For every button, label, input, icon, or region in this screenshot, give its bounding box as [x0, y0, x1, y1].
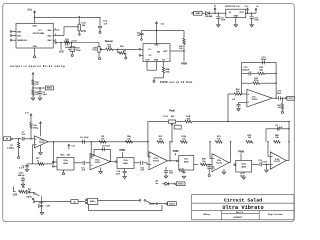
- svg-text:Rev 1.0: Rev 1.0: [236, 212, 244, 214]
- capacitor C10 10uF output: [277, 91, 285, 101]
- analog switch IC2d box: [234, 160, 252, 172]
- svg-text:VCP: VCP: [145, 60, 150, 62]
- wire IC1 RA4 to LFO pot wiper: [53, 27, 77, 36]
- svg-text:RA2: RA2: [48, 39, 52, 42]
- node VCO input pin circle: [139, 49, 141, 51]
- 3.3v power flag at 555: [155, 22, 165, 26]
- capacitor C1c .1uF: [81, 161, 90, 172]
- svg-text:OSC2: OSC2: [169, 204, 175, 206]
- regulator output wire: [245, 13, 256, 14]
- transistor Q2 invert: [155, 181, 174, 186]
- ground below R15: [125, 57, 127, 59]
- capacitor C4 10uF inline: [80, 136, 89, 144]
- IC1 RA0 stub wire: [53, 29, 59, 31]
- IC1 left pin stubs: [10, 31, 16, 41]
- peak wire right segment: [192, 121, 290, 122]
- ground below C11: [217, 25, 221, 27]
- svg-text:10k: 10k: [278, 107, 281, 109]
- 555 OUT wire: [170, 50, 185, 51]
- capacitor C11 10uF: [216, 13, 226, 24]
- feedback capacitor C15b .0047uF: [242, 67, 258, 75]
- svg-text:RA1: RA1: [17, 34, 21, 37]
- op-amp IC5d TL972: [270, 152, 286, 169]
- microcontroller IC1 PIC12F1840: [16, 23, 53, 48]
- VCO bus wire: [57, 42, 100, 44]
- svg-text:.0047uF: .0047uF: [17, 174, 25, 177]
- op-amp IC5b TL972: [149, 152, 168, 170]
- capacitor C1b 1uF: [137, 31, 144, 39]
- ground below C14: [99, 31, 101, 33]
- resistor R12b 10k inline: [180, 136, 187, 143]
- ground below regulator: [234, 25, 238, 27]
- bus tap to IC5a inverting input: [91, 141, 92, 158]
- capacitor C1a 1uF: [65, 43, 75, 52]
- LED net label stub: [59, 42, 64, 54]
- svg-text:10uF: 10uF: [262, 162, 267, 164]
- resistor R18 10k: [32, 78, 40, 88]
- op-amp IC5c TL972: [212, 154, 229, 172]
- ground below R21: [281, 111, 283, 113]
- 555 bottom pin wires: [147, 62, 157, 71]
- svg-text:VSS: VSS: [33, 46, 38, 48]
- capacitor C2 10uF: [38, 88, 48, 98]
- ground below C19: [237, 109, 241, 111]
- 3.3v top rail wire: [35, 16, 100, 18]
- ground below C2: [38, 98, 42, 100]
- IC5d output wire to rail: [286, 160, 289, 162]
- 3.3v flag at op-amp IC1a: [39, 122, 41, 136]
- resistor R1B 220 inline: [185, 116, 192, 123]
- ground below C15a: [21, 184, 25, 186]
- IC5a feedback capacitor C6 10uF: [91, 146, 111, 162]
- Peak net label: [169, 110, 175, 113]
- svg-text:TL972: TL972: [153, 161, 160, 163]
- wire J5 to SW1a: [78, 201, 85, 203]
- 9v flag right: [255, 6, 260, 13]
- bus tap to IC5d inverting input: [267, 141, 270, 156]
- output connector J4 OUT: [285, 96, 294, 100]
- ground below IC2b: [123, 177, 127, 179]
- diode D1 1N914B: [202, 12, 215, 19]
- svg-text:LED: LED: [59, 52, 64, 54]
- Sweep net label: [105, 39, 114, 43]
- wire switch to ground leg: [40, 196, 42, 202]
- signal bus wire: [48, 141, 148, 143]
- svg-text:PWM: PWM: [173, 151, 179, 153]
- svg-text:GND: GND: [195, 13, 200, 15]
- switch SW1B: [144, 200, 158, 206]
- PWM frequency note: [160, 80, 193, 84]
- svg-text:Page # or name: Page # or name: [268, 214, 284, 216]
- op-amp IC1a feedback resistor R17 1k: [32, 141, 54, 165]
- capacitor C14 .1uF: [98, 17, 108, 32]
- subtitle text Ultra Vibrato: [222, 205, 263, 211]
- ground below C1f: [208, 174, 210, 176]
- ground below R1: [18, 156, 20, 158]
- potentiometer Pot1 50k peak: [164, 115, 185, 126]
- title block frame: [192, 195, 294, 220]
- svg-text:Ultra Vibrato: Ultra Vibrato: [222, 205, 263, 211]
- svg-text:4.7uF: 4.7uF: [19, 167, 25, 170]
- ground below Pot1: [99, 52, 101, 59]
- svg-text:6/28/2017: 6/28/2017: [234, 217, 244, 219]
- svg-text:TL972: TL972: [251, 99, 258, 101]
- ground below IC2a: [62, 170, 64, 175]
- resistor R8 470: [19, 187, 27, 193]
- node VCOn label: [71, 40, 78, 43]
- ground below C1a C17: [71, 54, 73, 56]
- svg-text:PWM: PWM: [181, 64, 187, 66]
- LFO net label: [81, 30, 86, 33]
- IC2a left pin stubs: [53, 161, 58, 167]
- switch SW1C: [26, 193, 39, 200]
- capacitor C16 10uF: [258, 160, 270, 167]
- ground below IC5c: [222, 169, 226, 174]
- capacitor C7 .1uF: [21, 132, 34, 141]
- svg-text:PWM: PWM: [119, 150, 125, 152]
- wire SW1B to OSC2: [158, 203, 168, 205]
- op-amp IC4 mixer: [247, 89, 272, 107]
- ground below C15: [164, 176, 168, 178]
- IC1 RA2 pin wire: [53, 40, 55, 43]
- connector OSC2: [168, 202, 177, 206]
- IC4 output wire: [272, 97, 278, 99]
- svg-text:PWM: PWM: [238, 152, 244, 154]
- svg-text:IC2d: IC2d: [242, 163, 247, 165]
- capacitor C1d .1uF: [140, 161, 149, 172]
- riser from peak wire to output mixer: [227, 94, 228, 122]
- capacitor C16a 10uF below IC2b: [116, 169, 127, 177]
- ground below IC5a: [99, 168, 103, 174]
- 3.3v power flag at regulator output: [245, 6, 250, 13]
- svg-text:100pF: 100pF: [260, 59, 267, 61]
- resistor R1 2.2Meg: [7, 139, 20, 157]
- capacitor C17 10uF: [70, 47, 82, 55]
- svg-text:RA5: RA5: [17, 30, 21, 33]
- 9v power flag: [214, 6, 217, 14]
- svg-text:VDD: VDD: [154, 45, 159, 47]
- ground below IC2d: [242, 177, 246, 179]
- IC2b output wire: [134, 162, 140, 164]
- resistor R13 10k: [103, 45, 113, 51]
- pin circle below C1b: [141, 39, 143, 41]
- svg-text:VCOn: VCOn: [72, 40, 78, 42]
- 3.3v power flag at IC5a: [68, 144, 76, 149]
- svg-text:Sweep: Sweep: [105, 39, 114, 43]
- svg-text:RA3/MCLR: RA3/MCLR: [17, 39, 27, 42]
- IC5d feedback capacitor C9 1uF: [266, 125, 289, 142]
- svg-text:2Meg: 2Meg: [33, 127, 39, 129]
- svg-text:BIAS: BIAS: [47, 87, 53, 90]
- resistor R9b 10k inline: [274, 135, 281, 143]
- feedback resistor R23 510k: [242, 78, 277, 84]
- feedback right rail: [275, 62, 276, 99]
- IC1 pin numbers: [55, 29, 57, 42]
- svg-text:LFO: LFO: [81, 30, 86, 33]
- Pot2 bottom terminal pin: [79, 31, 81, 36]
- svg-text:RA0: RA0: [48, 29, 52, 32]
- feedback rail wire above 555: [142, 30, 185, 32]
- analog switch IC2b box: [117, 158, 134, 169]
- peak wire: [147, 122, 168, 143]
- svg-text:Circuit Salad: Circuit Salad: [224, 197, 262, 203]
- ground below C12: [250, 25, 254, 27]
- bypass loop wire: [89, 204, 162, 210]
- IC5b feedback riser: [169, 141, 170, 161]
- wire diode to regulator: [215, 13, 227, 14]
- capacitor C12 10uF: [250, 13, 260, 24]
- svg-text:PIC12F1840: PIC12F1840: [33, 32, 45, 35]
- title text Circuit Salad: [224, 197, 262, 203]
- battery connector J3: [192, 11, 202, 15]
- capacitor C1e 10uF below IC2c: [179, 169, 185, 174]
- bus tap to IC5c inverting input: [209, 141, 212, 159]
- capacitor C17b labels below IC2d: [240, 173, 246, 177]
- resistor R20 10k inline: [246, 135, 253, 143]
- svg-text:10uF: 10uF: [105, 146, 110, 148]
- bus tap to IC5b inverting input: [147, 141, 149, 157]
- analog switch IC2a box: [57, 154, 74, 170]
- PWM net label at IC2d: [238, 152, 244, 161]
- IC2d output wire: [252, 163, 260, 165]
- svg-text:TL972: TL972: [94, 162, 101, 164]
- svg-text:USB: USB: [154, 60, 159, 62]
- 555 TRG pin stub: [141, 48, 143, 50]
- svg-text:2.2Meg: 2.2Meg: [7, 147, 15, 149]
- ground at IC1a V-: [39, 145, 43, 154]
- capacitor C19 .1uF at IC4 +: [231, 99, 247, 109]
- svg-text:VDD: VDD: [32, 25, 37, 27]
- svg-text:OUT: OUT: [163, 51, 168, 53]
- svg-text:Peak: Peak: [169, 110, 175, 113]
- 3.3v power flag at IC1 VDD: [27, 8, 35, 17]
- resistor R21 10k to ground: [278, 98, 284, 111]
- potentiometer Pot1 sweep trim: [92, 43, 102, 53]
- capacitor C15 10uF below IC5b: [164, 167, 174, 176]
- PWM net stub: [181, 51, 187, 66]
- 3.3v power flag bias: [32, 73, 34, 79]
- potentiometer Pot2 50k LFO: [77, 22, 86, 31]
- capacitor C3 4.7uF to ground: [19, 164, 32, 170]
- resistor R5b 10k inline: [126, 136, 133, 143]
- IC1 VSS ground wire: [34, 48, 36, 56]
- LED1 diode: [26, 188, 33, 194]
- connector J5: [71, 200, 78, 204]
- regulator ground pin wire: [235, 17, 237, 25]
- resistor R14 10k: [228, 88, 247, 95]
- IC2a output wire: [74, 162, 82, 164]
- svg-text:10uF: 10uF: [84, 137, 90, 139]
- switch SW1a box: [85, 198, 97, 204]
- ground below C16: [265, 164, 269, 172]
- ground below Q1: [40, 213, 44, 215]
- op-amp IC5a TL972: [90, 153, 110, 169]
- wire R13 to VCO input: [113, 48, 139, 50]
- wire 3.3v to 555 VDD: [156, 25, 157, 43]
- input connector J1 IN: [4, 137, 13, 141]
- 555 CMP pin stub: [139, 55, 143, 57]
- svg-text:SELcg: SELcg: [203, 214, 210, 216]
- svg-text:output is approx 8v-9v swing: output is approx 8v-9v swing: [10, 64, 65, 68]
- resistor R5 10k inline: [99, 136, 106, 143]
- resistor R6B 100k: [154, 62, 171, 81]
- svg-text:10uF: 10uF: [277, 93, 283, 95]
- svg-text:TL972: TL972: [39, 142, 46, 144]
- svg-text:.0047uF: .0047uF: [242, 69, 250, 72]
- resistor R10 100: [64, 39, 69, 44]
- IC5a output wire: [110, 161, 117, 163]
- peak pot wiper box: [171, 125, 181, 142]
- svg-text:SW1C: SW1C: [26, 197, 32, 199]
- capacitor C1f shunt: [207, 164, 215, 175]
- wire to bypass connector: [33, 201, 71, 203]
- resistor R19 10k: [32, 88, 40, 98]
- IC5c feedback riser: [229, 141, 231, 163]
- transistor Q1 indicator: [39, 203, 51, 213]
- analog switch IC2c box: [176, 156, 193, 171]
- op-amp IC1a TL972: [34, 136, 48, 148]
- svg-text:SW1a: SW1a: [90, 201, 96, 203]
- svg-text:OSC1: OSC1: [178, 184, 184, 186]
- connector OSC1: [175, 182, 185, 186]
- node VCO pin circle: [55, 42, 57, 44]
- oscillator IC7 555 VCO: [143, 44, 170, 62]
- svg-text:PWM out at 40 KHz: PWM out at 40 KHz: [160, 80, 193, 84]
- right feedback rail: [288, 122, 289, 161]
- wire IC1 VDD to 3.3v rail: [34, 17, 35, 24]
- regulator IC8 MCP1700: [225, 6, 246, 18]
- svg-text:TL972: TL972: [216, 163, 223, 165]
- svg-text:TL972: TL972: [274, 161, 281, 163]
- node BIAS: [32, 87, 45, 88]
- swing note: [10, 64, 65, 68]
- wire input: [12, 138, 21, 139]
- title block fields: [203, 212, 283, 219]
- wire SW1a to SW1b: [98, 200, 141, 202]
- svg-text:LED: LED: [13, 194, 18, 196]
- feedback left rail: [241, 62, 242, 94]
- LED net label: [13, 186, 18, 196]
- resistor R10b 10k inline: [215, 136, 222, 143]
- resistor R1a 2Meg pullup: [25, 112, 39, 139]
- wire 3.3v rail to Pot2: [79, 16, 80, 24]
- resistor R12 10k inline: [157, 136, 164, 143]
- resistor R16 1.8k: [179, 31, 185, 51]
- resistor R15 10k shunt: [117, 46, 127, 57]
- IC2c output wire: [194, 164, 198, 166]
- ground below C3: [25, 170, 29, 172]
- IC5b output wire: [168, 160, 177, 161]
- BIAS net label box: [45, 86, 53, 90]
- svg-text:3.3v: 3.3v: [27, 8, 32, 11]
- PWM net label at IC2c: [173, 151, 179, 155]
- resistor R8b 10k inline: [200, 159, 207, 166]
- svg-text:1N914B: 1N914B: [205, 15, 213, 18]
- capacitor C15a .0047uF: [17, 173, 25, 184]
- svg-text:MCP1700 3.3v: MCP1700 3.3v: [225, 6, 240, 8]
- ground at IC1 VSS: [34, 56, 36, 58]
- svg-text:.1uF: .1uF: [21, 134, 26, 136]
- ground below R19: [31, 98, 35, 100]
- PWM net label at IC2b: [119, 150, 125, 157]
- ground below 555 divider: [153, 80, 155, 82]
- feedback resistor R22 43k: [258, 67, 277, 75]
- ground below IC2c: [182, 176, 186, 178]
- feedback top capacitor C13 100pF: [242, 57, 277, 65]
